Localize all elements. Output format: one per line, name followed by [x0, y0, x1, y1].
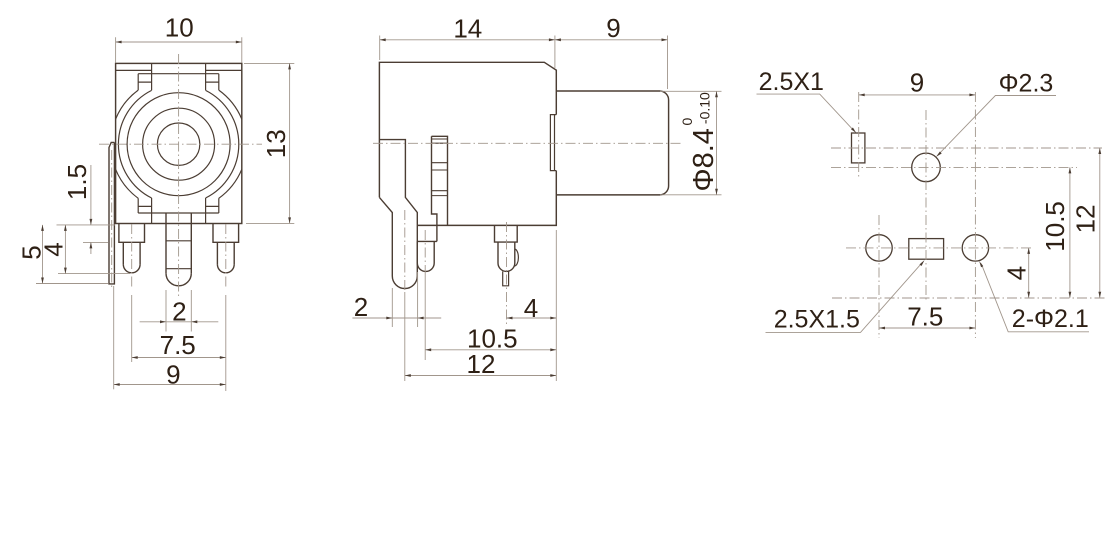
centerline row rect: [831, 147, 1102, 149]
centerline col top rect: [858, 92, 860, 178]
right pin shank: [217, 242, 234, 264]
centerline row circle top: [831, 166, 1077, 168]
svg-text:9: 9: [606, 13, 620, 43]
centerline horizontal front view: [99, 143, 262, 145]
bezel strip side view: [432, 136, 448, 241]
center pin front shank: [166, 213, 191, 273]
corner arc top-right r67.8: [219, 90, 242, 119]
bracket leg round tip: [392, 276, 417, 289]
centerline row bottom: [846, 247, 1034, 249]
dim 9 fp line: [859, 94, 976, 96]
top ear verticals: [138, 74, 219, 90]
dim 12 fp line: [1099, 148, 1101, 298]
dim 2 front line: [140, 321, 219, 323]
dim 14 line: [380, 39, 555, 41]
label 2-phi2.1 leader: [981, 264, 1089, 332]
hole circle phi2.3: [912, 153, 941, 182]
svg-text:12: 12: [1071, 204, 1101, 233]
left pin shoulder: [119, 224, 145, 243]
center pin side bulge: [514, 249, 518, 266]
hole circle left phi2.1: [866, 235, 892, 261]
dim phi8.4 line: [716, 91, 718, 195]
svg-text:13: 13: [261, 129, 291, 158]
centerline pin B: [424, 230, 426, 275]
svg-text:7.5: 7.5: [907, 302, 943, 332]
bezel strip division lines: [432, 139, 448, 196]
svg-text:4: 4: [1002, 266, 1032, 280]
center pin front round tip: [166, 273, 191, 286]
svg-text:2.5X1.5: 2.5X1.5: [774, 306, 860, 334]
body outline side view: [379, 62, 556, 225]
circle r21.2: [157, 123, 199, 165]
center pin side shank: [498, 242, 515, 263]
svg-text:5: 5: [17, 245, 47, 259]
label 2.5X1 leader: [757, 94, 854, 130]
dim 1.5 line: [90, 165, 92, 254]
dim 4 side extension line body edge: [555, 230, 557, 381]
svg-text:4: 4: [524, 293, 538, 323]
hole circle right phi2.1: [962, 235, 988, 261]
barrel outline: [556, 91, 668, 195]
bracket leg side view: [379, 140, 417, 276]
dim 9 side extension line: [667, 36, 669, 90]
dim 4 left line: [64, 225, 66, 274]
baseline dashed: [832, 297, 1106, 299]
dim 4 left extension line: [58, 273, 130, 275]
svg-text:Φ2.3: Φ2.3: [999, 70, 1054, 98]
right pin round tip: [217, 264, 234, 272]
dim 10 extension lines: [116, 37, 242, 62]
right pin shoulder: [213, 224, 239, 243]
centerline center pin side: [506, 222, 508, 326]
center pin side thin tip: [503, 271, 509, 285]
svg-text:9: 9: [166, 360, 180, 390]
dim phi8.4 extension lines: [660, 91, 722, 195]
corner arc top-left r67.8: [116, 90, 139, 119]
dim 10.5 line: [425, 349, 556, 351]
svg-text:2: 2: [354, 292, 368, 322]
center pin side round tip: [498, 263, 515, 271]
dim 1.5 extension lines: [57, 225, 116, 243]
svg-text:2: 2: [172, 297, 186, 327]
dim 4 fp line: [1028, 248, 1030, 298]
center pin side shoulder: [495, 225, 518, 242]
hole rect 2.5x1.5: [909, 239, 944, 260]
top strip line: [116, 69, 242, 71]
bottom ear verticals: [138, 198, 219, 213]
dim 10.5 fp line: [1069, 167, 1071, 297]
dim 9 front extension line: [113, 286, 115, 389]
svg-text:10.5: 10.5: [1040, 201, 1070, 252]
bezel right arc r60.2: [206, 90, 239, 198]
dim 5 line: [42, 225, 44, 284]
top ear steps: [138, 81, 219, 83]
dim 12 line: [405, 375, 557, 377]
dim 4 side line: [507, 317, 557, 319]
barrel key notch: [550, 115, 556, 171]
svg-text:2-Φ2.1: 2-Φ2.1: [1012, 305, 1089, 333]
svg-text:12: 12: [467, 349, 496, 379]
dim 14 extension lines: [380, 36, 555, 69]
svg-text:14: 14: [453, 13, 482, 43]
pin B side view: [417, 241, 434, 263]
centerline col circle bottom-right: [974, 92, 976, 338]
centerline horizontal side view: [373, 142, 682, 144]
corner arc bottom-left r67.8: [116, 169, 139, 198]
dim 5 extension line: [36, 283, 108, 285]
svg-text:-0.10: -0.10: [696, 92, 712, 124]
centerline col circle top: [925, 110, 927, 302]
dim 12 extension line: [404, 292, 406, 381]
top collar line: [138, 73, 219, 75]
circle r36: [143, 108, 215, 180]
centerline bracket leg: [404, 210, 406, 292]
svg-text:Φ8.4: Φ8.4: [688, 128, 720, 191]
circle r51.5: [127, 93, 230, 196]
svg-text:10: 10: [165, 13, 194, 43]
pin B shoulder bottom: [417, 240, 437, 242]
dim 2 front extension lines: [166, 290, 191, 332]
mounting plate edge-on left: [109, 142, 114, 284]
svg-text:7.5: 7.5: [160, 330, 196, 360]
bottom tab verticals: [152, 198, 206, 224]
body outline front view: [116, 63, 242, 223]
centerline right pin: [225, 224, 227, 289]
bottom collar line: [138, 212, 219, 214]
centerline plate: [111, 150, 113, 290]
dim 9 front line: [114, 384, 226, 386]
svg-text:9: 9: [910, 68, 924, 98]
dim 13 line: [289, 63, 291, 223]
svg-text:2.5X1: 2.5X1: [759, 68, 824, 96]
dim 2 side line: [352, 317, 441, 319]
top tab verticals: [152, 63, 206, 90]
svg-text:1.5: 1.5: [62, 164, 92, 200]
centerline left pin: [131, 224, 133, 289]
svg-text:0: 0: [679, 117, 695, 125]
bezel left arc r60.2: [118, 90, 151, 198]
dim 7.5 extension lines: [132, 295, 226, 391]
centerline vertical front view: [178, 54, 180, 296]
left pin shank: [123, 242, 140, 264]
bottom ear steps: [138, 205, 219, 207]
left pin round tip: [123, 264, 140, 272]
corner arc bottom-right r67.8: [219, 169, 242, 198]
dim 2 side extension lines: [392, 272, 417, 327]
dim 7.5 fp line: [879, 327, 975, 329]
centerline col circle bottom-left: [878, 215, 880, 338]
dim 9 side line: [555, 39, 668, 41]
dim 10 line: [116, 41, 242, 43]
pin B round tip: [417, 263, 434, 271]
center pin front section lines: [166, 241, 191, 269]
hole rect 2.5x1: [852, 133, 865, 163]
label 2.5X1.5 leader: [766, 262, 923, 332]
dim 7.5 line: [132, 357, 226, 359]
dim 13 extension lines: [244, 63, 294, 223]
dim 10.5 extension line: [424, 275, 426, 360]
label phi2.3 leader: [939, 96, 1057, 155]
